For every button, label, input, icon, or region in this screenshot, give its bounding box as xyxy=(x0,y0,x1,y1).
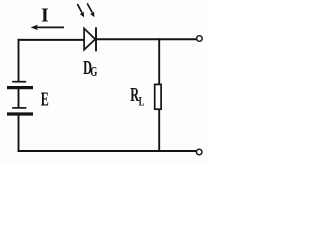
svg-text:L: L xyxy=(139,95,145,109)
wire bottom rail xyxy=(18,150,197,152)
wire between battery cells xyxy=(18,89,20,107)
wire top rail left segment xyxy=(18,39,85,41)
svg-text:G: G xyxy=(90,65,97,79)
wire battery to bottom rail xyxy=(18,116,20,153)
light arrow 1 (incident light) xyxy=(77,4,84,17)
current arrow I xyxy=(31,25,64,31)
wire resistor branch bottom xyxy=(158,109,160,152)
wire left vertical (top rail to battery) xyxy=(18,39,20,81)
svg-text:R: R xyxy=(130,83,139,106)
terminal top right xyxy=(197,36,203,42)
battery E: thick long plate 2 xyxy=(7,112,33,115)
battery E: short plate 2 xyxy=(12,107,26,109)
battery E: thick long plate 1 xyxy=(7,86,33,89)
light arrow 2 (incident light) xyxy=(87,3,94,17)
terminal bottom right xyxy=(196,149,202,155)
wire resistor branch top xyxy=(158,38,160,85)
wire top rail right segment xyxy=(96,38,197,40)
photodiode DG cathode bar xyxy=(95,27,97,51)
svg-text:E: E xyxy=(41,89,49,111)
photodiode DG triangle (anode) xyxy=(84,28,95,49)
battery E: short plate 1 xyxy=(12,81,26,83)
svg-text:I: I xyxy=(41,5,49,27)
resistor RL body xyxy=(155,84,161,109)
